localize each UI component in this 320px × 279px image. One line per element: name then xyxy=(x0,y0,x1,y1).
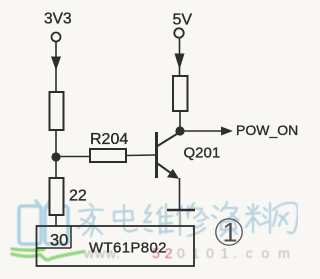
wire 5V rail down xyxy=(179,38,181,76)
watermark chinese char 电 xyxy=(114,205,137,231)
pin cell divider xyxy=(37,226,72,248)
resistor 22 ohm xyxy=(50,178,64,215)
svg-text:30: 30 xyxy=(50,232,68,250)
node collector junction dot xyxy=(175,126,184,135)
resistor right (5V pull-up) xyxy=(173,76,188,111)
svg-text:Q201: Q201 xyxy=(184,145,221,162)
svg-text:5V: 5V xyxy=(173,12,193,29)
wire to POW_ON xyxy=(180,130,222,132)
terminal circle 3V3 xyxy=(52,33,61,42)
watermark logo open-book blue xyxy=(19,201,68,244)
svg-text:3V3: 3V3 xyxy=(44,11,72,28)
wire resistor to junction xyxy=(55,130,57,178)
resistor R204 xyxy=(90,149,126,162)
watermark chinese char 资 xyxy=(212,202,239,236)
watermark url www.520101.com xyxy=(83,245,299,261)
svg-text:1: 1 xyxy=(223,218,238,248)
faint pin stub into IC xyxy=(179,211,181,226)
node junction dot left xyxy=(51,152,60,161)
svg-text:.com: .com xyxy=(233,245,298,261)
wire 3V3 rail down xyxy=(55,42,57,93)
transistor emitter stroke xyxy=(158,164,176,177)
transistor collector stroke xyxy=(158,132,181,146)
svg-text:POW_ON: POW_ON xyxy=(236,122,298,138)
arrow down on 3V3 rail xyxy=(51,57,61,71)
transistor Q2 base bar xyxy=(155,132,158,178)
wire emitter down xyxy=(179,178,181,210)
svg-text:WT61P802: WT61P802 xyxy=(89,240,167,257)
watermark chinese char 维 xyxy=(144,204,173,234)
terminal circle 5V xyxy=(174,28,183,37)
watermark chinese char 料 xyxy=(246,203,270,233)
svg-text:22: 22 xyxy=(69,188,87,205)
annotation circled 1 xyxy=(216,219,242,245)
watermark chinese char 修 xyxy=(177,203,208,236)
resistor left top (3V3 pull-up) xyxy=(50,92,64,130)
wire 22 resistor to IC box xyxy=(55,215,57,227)
transistor emitter arrowhead xyxy=(167,169,179,179)
arrow down on 5V rail xyxy=(175,54,185,70)
svg-text:R204: R204 xyxy=(90,131,128,148)
emitter terminal crossbar xyxy=(167,209,195,211)
arrow POW_ON xyxy=(221,127,233,136)
wire junction to R204 xyxy=(56,156,90,158)
wire resistor to collector node xyxy=(179,111,181,131)
watermark chinese char 网 xyxy=(273,203,298,233)
wire R204 to base xyxy=(126,154,155,157)
watermark chinese char 家 xyxy=(78,204,103,236)
IC box WT61P802 xyxy=(37,226,195,266)
watermark logo green swoosh xyxy=(12,249,84,260)
